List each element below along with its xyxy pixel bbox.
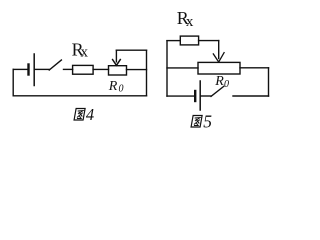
label R0 (right circuit) (214, 74, 229, 90)
rheostat R0 (right circuit) wiper arrowhead (213, 53, 224, 62)
wire: right circuit top wire to Rx (167, 40, 180, 42)
label Rx (right circuit) (177, 8, 194, 30)
wire: R0 to right edge (127, 69, 147, 71)
svg-text:R: R (214, 74, 224, 89)
label 图4 caption: hand-drawn CJK glyph "图" (74, 109, 85, 121)
svg-text:0: 0 (119, 83, 124, 94)
rheostat R0 (left circuit) wiper arrow stem (115, 50, 117, 62)
switch S2 (right circuit) blade (211, 86, 224, 96)
battery B2 (right circuit) short thick plate (194, 91, 196, 101)
switch S1 (left circuit) blade (49, 60, 61, 70)
svg-text:x: x (186, 14, 194, 30)
wire: right circuit Rx to wiper stem (199, 40, 219, 42)
svg-text:R: R (108, 79, 118, 94)
svg-text:0: 0 (224, 79, 229, 90)
rheostat R0 (left circuit) box (109, 66, 127, 75)
wire: right circuit middle wire left segment (167, 67, 198, 69)
wire: right circuit bottom wire left segment (167, 95, 194, 97)
wire: right circuit right edge (268, 68, 270, 96)
wire: left circuit right edge (146, 50, 148, 96)
resistor Rx (left circuit) box (73, 65, 94, 74)
wire: battery to switch pivot (right circuit) (201, 95, 211, 97)
battery B1 (left circuit) short thick plate (27, 65, 29, 75)
wire: switch to Rx (64, 68, 73, 70)
label 图5 caption: hand-drawn CJK glyph "图" (191, 116, 202, 128)
wire: right circuit middle wire right segment (240, 67, 269, 69)
svg-text:5: 5 (203, 111, 212, 131)
wire: left circuit main wire from left corner to battery (13, 68, 27, 70)
svg-text:4: 4 (86, 105, 94, 124)
svg-text:x: x (81, 44, 89, 60)
wire: right circuit left edge (166, 41, 168, 96)
resistor Rx (right circuit) box (180, 36, 198, 45)
wire: left circuit top wire from right edge to wiper (116, 49, 146, 51)
wire: left circuit left edge (12, 69, 14, 95)
rheostat R0 (right circuit) wiper arrow stem (218, 41, 220, 59)
wire: Rx to R0 (93, 68, 108, 70)
battery B2 (right circuit) long thin plate (199, 81, 201, 110)
label Rx (left circuit) (72, 39, 89, 60)
rheostat R0 (right circuit) box (198, 62, 240, 74)
rheostat R0 (left circuit) wiper arrowhead (113, 60, 121, 66)
wire: left circuit bottom wire (13, 95, 146, 97)
wire: switch to right edge (right circuit) (233, 95, 269, 97)
wire: battery to switch pivot (35, 68, 49, 70)
battery B1 (left circuit) long thin plate (33, 54, 35, 86)
label R0 (left circuit) (108, 79, 124, 95)
